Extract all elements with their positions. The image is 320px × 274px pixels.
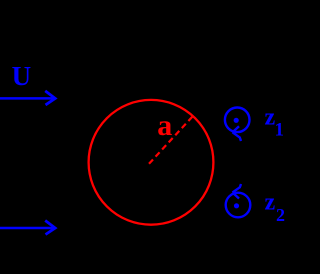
vortex Z1: clockwise rotation arrow xyxy=(233,126,242,141)
arrow: lower free-stream arrowhead xyxy=(45,221,55,235)
vortex Z2: counter-clockwise rotation arrow xyxy=(233,184,242,199)
vortex Z1: center dot xyxy=(234,118,239,123)
svg-text:z: z xyxy=(265,189,276,215)
svg-text:a: a xyxy=(157,109,172,142)
arrow: upper free-stream flow line xyxy=(0,97,53,100)
vortex Z1: circle xyxy=(225,108,250,133)
cylinder: red circle of radius a xyxy=(89,100,214,225)
svg-text:U: U xyxy=(12,61,32,91)
svg-text:2: 2 xyxy=(276,205,285,225)
arrow: upper free-stream arrowhead xyxy=(45,91,55,105)
svg-text:1: 1 xyxy=(275,119,285,140)
vortex Z2: circle xyxy=(226,193,251,218)
arrow: lower free-stream flow line xyxy=(0,227,53,230)
dashed radius line from center to circle edge xyxy=(149,117,193,164)
vortex Z2: center dot xyxy=(234,203,239,208)
